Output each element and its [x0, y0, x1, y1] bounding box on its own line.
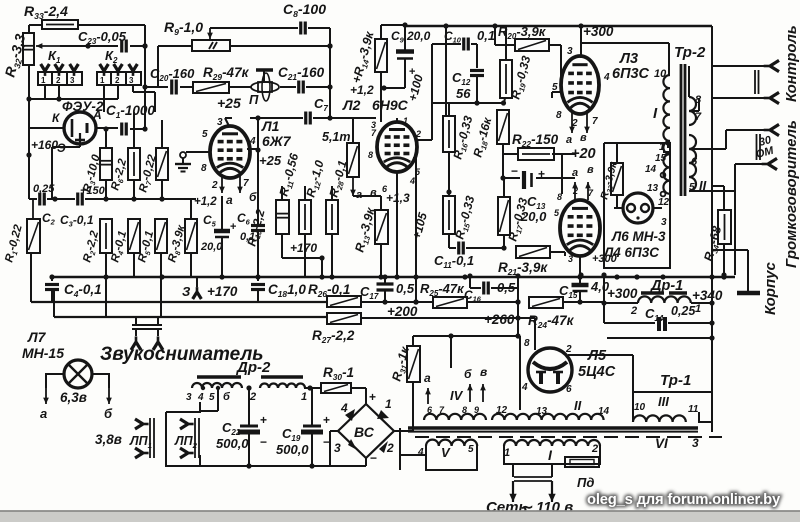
- wire P-C21: [280, 86, 296, 88]
- resistor R19: [500, 60, 512, 98]
- svg-text:6Н9С: 6Н9С: [372, 97, 409, 113]
- wire R3 top: [105, 129, 107, 148]
- resistor R20: [515, 39, 549, 51]
- wire K2 pins down: [103, 85, 105, 112]
- svg-text:0,1: 0,1: [477, 28, 495, 43]
- svg-text:С21​-160: С21​-160: [278, 65, 325, 82]
- svg-text:III: III: [658, 394, 669, 409]
- capacitor C21: [297, 81, 300, 94]
- lamp L6: [623, 193, 653, 223]
- svg-text:II: II: [574, 398, 582, 413]
- wire x451 down: [450, 336, 452, 368]
- wire tap 15: [663, 151, 670, 153]
- svg-text:С20​-160: С20​-160: [150, 66, 195, 83]
- wire FEU left: [29, 127, 64, 129]
- svg-text:14: 14: [645, 164, 657, 175]
- frame right top: [711, 26, 713, 432]
- capacitor C18: [257, 277, 259, 281]
- svg-text:5: 5: [468, 444, 474, 455]
- svg-text:8: 8: [556, 110, 562, 121]
- svg-text:в: в: [370, 187, 377, 199]
- svg-text:6Ж7: 6Ж7: [262, 133, 292, 149]
- wire R15 bot: [448, 234, 450, 248]
- wire L2 pin5: [413, 157, 416, 159]
- resistor R9: [192, 40, 230, 51]
- resistor R30: [321, 383, 351, 393]
- svg-text:3: 3: [661, 217, 667, 228]
- pickup forks: [131, 336, 141, 350]
- jack speaker 1: [764, 124, 779, 135]
- svg-text:Л2: Л2: [342, 97, 361, 113]
- svg-text:+340: +340: [692, 288, 723, 303]
- svg-text:500,0: 500,0: [216, 436, 249, 451]
- resistor R16: [443, 116, 455, 152]
- wire C9 bottom: [384, 87, 405, 89]
- resistor R29: [193, 82, 229, 93]
- wire R2 bot: [105, 253, 107, 317]
- resistor R34: [718, 210, 731, 244]
- wire C3 right: [85, 198, 196, 200]
- svg-text:0,25: 0,25: [33, 183, 55, 195]
- svg-text:5,1m: 5,1m: [322, 130, 351, 144]
- svg-text:+1,2: +1,2: [194, 196, 217, 208]
- svg-text:13: 13: [536, 406, 548, 417]
- fork K2 c: [129, 64, 138, 76]
- svg-text:+: +: [323, 413, 330, 427]
- wire R30: [304, 387, 321, 389]
- wire L1 pins bottom: [221, 175, 223, 193]
- winding IV: [424, 414, 486, 420]
- wire C23 right: [130, 45, 145, 47]
- wire L4 arrows: [574, 182, 576, 200]
- resistor R14: [375, 39, 387, 72]
- svg-text:IV: IV: [450, 388, 464, 403]
- winding II: [492, 414, 604, 420]
- core Tp1: [408, 426, 698, 429]
- wire R26 right: [361, 301, 433, 303]
- svg-text:в: в: [587, 164, 594, 176]
- svg-text:R27​-2,2: R27​-2,2: [312, 328, 355, 345]
- wire y336: [413, 335, 518, 337]
- wire C20-R29: [180, 86, 193, 88]
- svg-text:6: 6: [566, 384, 572, 395]
- capacitor C12: [470, 69, 484, 72]
- resistor R11: [299, 200, 311, 234]
- svg-text:7: 7: [592, 116, 598, 127]
- bottom strip: [0, 511, 800, 522]
- svg-text:С18​1,0: С18​1,0: [268, 282, 306, 299]
- wire R6 top: [133, 112, 135, 148]
- plug arrows: [512, 481, 514, 502]
- svg-text:2: 2: [630, 305, 637, 317]
- svg-text:+200: +200: [387, 304, 418, 319]
- lamp L7: [64, 360, 92, 388]
- svg-text:−: −: [370, 451, 377, 465]
- wire x735 down: [734, 191, 736, 275]
- capacitor C20: [170, 80, 173, 95]
- svg-text:3: 3: [217, 117, 223, 128]
- box L6: [604, 143, 670, 268]
- wire R9 arrow: [209, 28, 211, 39]
- wire R16 bot: [448, 152, 450, 196]
- svg-text:+300: +300: [583, 24, 614, 39]
- svg-text:−: −: [260, 435, 267, 449]
- wire left rail: [28, 65, 30, 199]
- bus y301: [31, 301, 327, 303]
- resistor R3: [100, 148, 112, 180]
- svg-text:0,5: 0,5: [497, 280, 516, 295]
- wire FEU bottom: [79, 142, 81, 147]
- wire L4 bottom: [579, 256, 581, 277]
- svg-text:+25: +25: [217, 95, 241, 111]
- svg-text:+170: +170: [290, 241, 317, 255]
- svg-text:1: 1: [403, 116, 408, 126]
- wire C2-C3: [47, 198, 75, 200]
- svg-text:4: 4: [417, 447, 424, 458]
- svg-text:4: 4: [249, 136, 256, 147]
- svg-text:а: а: [226, 193, 233, 207]
- wire R5 bot: [160, 253, 162, 277]
- svg-text:+25: +25: [259, 153, 282, 168]
- wire L2 bottom: [396, 172, 398, 277]
- wire bridge top: [365, 395, 367, 404]
- wire L1 grid left: [186, 151, 210, 153]
- svg-text:а: а: [356, 189, 362, 201]
- resistor R7: [156, 148, 168, 180]
- jack speaker 2: [762, 158, 777, 169]
- jack LP1: [135, 419, 149, 429]
- svg-text:3: 3: [129, 76, 134, 85]
- capacitor C3: [76, 193, 79, 206]
- resistor R13: [375, 210, 388, 244]
- svg-text:56: 56: [456, 86, 471, 101]
- svg-text:+1,3: +1,3: [386, 191, 410, 205]
- wire R9 right: [230, 45, 330, 47]
- wire C5 bottom: [221, 253, 223, 277]
- svg-text:R33​-2,4: R33​-2,4: [24, 3, 68, 21]
- svg-text:МН-15: МН-15: [22, 345, 64, 361]
- svg-text:R25​-47к: R25​-47к: [420, 281, 465, 298]
- wire R1: [32, 199, 34, 219]
- wire L7 leads: [46, 374, 64, 388]
- wire R6 bot: [133, 180, 135, 199]
- svg-text:14: 14: [598, 406, 610, 417]
- wire R22: [503, 153, 518, 155]
- wire x712 lower: [711, 277, 713, 432]
- tube L4: [560, 200, 600, 256]
- svg-text:2: 2: [249, 391, 256, 403]
- wire R7 top: [161, 120, 163, 148]
- wire fuse: [552, 461, 565, 463]
- svg-text:в: в: [480, 365, 487, 379]
- arrow L7 a: [45, 388, 47, 404]
- svg-text:4: 4: [197, 392, 204, 403]
- bridge VS: [338, 404, 394, 458]
- resistor R31: [407, 346, 420, 382]
- wire Dr2 taps: [217, 388, 219, 411]
- svg-text:8: 8: [557, 192, 562, 202]
- svg-text:2: 2: [211, 180, 218, 191]
- tube L5: [528, 348, 572, 392]
- svg-text:б: б: [223, 391, 231, 403]
- winding III: [633, 415, 686, 422]
- resistor R25h: [433, 297, 467, 308]
- wire L3 pins: [552, 91, 561, 93]
- wire top bus y28: [210, 27, 298, 29]
- svg-text:П: П: [249, 92, 259, 107]
- svg-text:Тр-2: Тр-2: [674, 44, 706, 61]
- resistor R12: [326, 200, 338, 234]
- wire C7 row: [250, 117, 303, 119]
- wire R10 bottom: [281, 234, 283, 258]
- winding I: [504, 440, 600, 446]
- svg-text:З: З: [182, 284, 191, 299]
- svg-text:12: 12: [658, 197, 670, 208]
- svg-text:−: −: [511, 164, 518, 178]
- wire L5 top: [534, 318, 536, 350]
- circle pin14: [661, 173, 666, 178]
- wire C8 right: [308, 27, 330, 29]
- svg-text:−: −: [323, 435, 330, 449]
- wire R33 left: [29, 24, 42, 26]
- wire R7 bot: [161, 180, 163, 199]
- resistor R4: [128, 219, 140, 253]
- jack kontrol 1: [764, 60, 779, 71]
- wire arrow into R32: [36, 45, 60, 47]
- resistor R27h: [327, 313, 361, 324]
- svg-text:Л4 6П3С: Л4 6П3С: [603, 245, 659, 260]
- svg-text:6: 6: [691, 156, 698, 168]
- svg-text:+: +: [369, 390, 376, 404]
- svg-text:5: 5: [209, 392, 215, 403]
- svg-text:Л1: Л1: [261, 118, 280, 134]
- svg-text:С11​-0,1: С11​-0,1: [434, 253, 474, 270]
- capacitor C11: [457, 242, 460, 255]
- resistor R15: [443, 196, 455, 234]
- pickup lines: [132, 324, 162, 326]
- resistor R5: [155, 219, 167, 253]
- resistor R23: [611, 163, 623, 195]
- svg-text:4: 4: [603, 72, 610, 83]
- svg-text:R9​-1,0: R9​-1,0: [164, 19, 203, 37]
- wire Dr1 right: [691, 302, 713, 304]
- wire C13: [503, 177, 520, 179]
- svg-text:3: 3: [186, 392, 192, 403]
- wire R4 bot: [133, 253, 135, 277]
- switch K2: [97, 72, 141, 85]
- svg-text:А: А: [92, 108, 102, 122]
- transformer Tp2 core: [680, 64, 683, 196]
- wire R28: [352, 118, 354, 143]
- svg-text:а: а: [572, 167, 578, 179]
- svg-text:3: 3: [70, 76, 75, 85]
- svg-text:Л7: Л7: [27, 329, 47, 345]
- wire y275 right: [603, 268, 605, 275]
- capacitor C23: [120, 40, 123, 53]
- wire R32 row: [60, 45, 88, 47]
- jack kontrol 2: [764, 92, 779, 103]
- svg-text:V: V: [441, 445, 451, 460]
- svg-text:10: 10: [634, 402, 646, 413]
- wire R25: [467, 301, 518, 303]
- svg-text:R21​-3,9к: R21​-3,9к: [498, 260, 548, 277]
- fuse Pd: [565, 457, 599, 467]
- watermark: [0, 0, 1, 1]
- svg-text:Тр-1: Тр-1: [660, 372, 691, 389]
- piezo P: [251, 82, 279, 92]
- tube L2: [377, 122, 417, 172]
- svg-text:R29​-47к: R29​-47к: [203, 65, 250, 82]
- svg-text:Др-1: Др-1: [649, 278, 683, 294]
- ecap C9: [396, 49, 414, 54]
- jack LP2: [180, 419, 194, 429]
- wire Tp2 to jacks: [688, 66, 690, 97]
- wire C21 right: [306, 86, 330, 88]
- svg-text:4: 4: [521, 382, 528, 393]
- svg-text:8: 8: [524, 338, 530, 349]
- svg-text:Л6 МН-3: Л6 МН-3: [611, 229, 666, 244]
- svg-text:4: 4: [409, 176, 415, 186]
- wire R20: [494, 26, 496, 45]
- wire frame to ground: [712, 249, 748, 251]
- wire C1 right: [130, 128, 145, 130]
- capacitor C7: [304, 112, 307, 125]
- svg-text:Пд: Пд: [577, 475, 594, 490]
- svg-text:3: 3: [334, 441, 341, 455]
- svg-text:а: а: [424, 371, 431, 385]
- resistor R28: [347, 143, 359, 177]
- svg-text:1: 1: [695, 303, 701, 315]
- svg-text:6П3С: 6П3С: [612, 66, 650, 82]
- wire FEU right: [96, 127, 118, 129]
- svg-text:Корпус: Корпус: [762, 262, 779, 315]
- svg-text:б: б: [464, 367, 472, 381]
- wire L5 right: [568, 354, 633, 356]
- wire L3 top: [580, 26, 582, 43]
- svg-text:Громкоговоритель: Громкоговоритель: [783, 120, 800, 268]
- svg-text:+20: +20: [571, 146, 596, 162]
- wire bridge left: [330, 430, 338, 432]
- fork K2 b: [114, 64, 123, 76]
- wire C7 right: [313, 117, 330, 119]
- svg-text:VI: VI: [655, 436, 668, 451]
- svg-text:в: в: [580, 132, 587, 144]
- wire V left: [400, 454, 426, 456]
- wire Tp2 prim bottom: [669, 194, 671, 200]
- resistor R21: [516, 246, 550, 258]
- capacitor C1: [120, 123, 123, 136]
- resistor R18: [497, 110, 509, 144]
- wire x161 drop: [160, 277, 162, 317]
- resistor R8: [185, 219, 197, 253]
- svg-text:+: +: [230, 221, 236, 233]
- wire R3 bot: [105, 180, 107, 199]
- wire Tp2 prim top: [668, 43, 670, 75]
- svg-text:7: 7: [695, 111, 702, 123]
- wire C14 down: [607, 337, 713, 339]
- svg-text:500,0: 500,0: [276, 442, 309, 457]
- wire bridge right: [394, 430, 413, 432]
- wire plug: [514, 476, 552, 478]
- resistor R17: [498, 197, 510, 235]
- wire row y87 left: [145, 86, 168, 88]
- svg-text:2: 2: [415, 129, 421, 139]
- svg-text:5: 5: [202, 129, 208, 140]
- svg-text:12: 12: [496, 405, 508, 416]
- svg-text:С3​-0,1: С3​-0,1: [60, 213, 94, 229]
- wire K2 pin3 down: [132, 85, 134, 92]
- transformer Tp2 sec a: [689, 97, 696, 125]
- arrow v: [482, 384, 484, 402]
- wire R8 bot: [190, 253, 192, 277]
- wire R17: [503, 178, 505, 197]
- core Tp1 dashed: [415, 436, 722, 438]
- resistor R24h: [529, 297, 563, 308]
- wire L1 top pin: [225, 118, 229, 126]
- svg-text:С4​-0,1: С4​-0,1: [64, 282, 102, 299]
- bus y317: [54, 316, 327, 318]
- svg-text:5Ц4С: 5Ц4С: [578, 364, 616, 380]
- capacitor C4: [51, 277, 53, 281]
- tube L1: [210, 126, 250, 178]
- arrow a: [427, 388, 429, 404]
- svg-text:+260: +260: [484, 312, 515, 327]
- capacitor C14: [657, 317, 661, 331]
- wire C11 right: [466, 247, 504, 249]
- svg-text:8: 8: [462, 405, 467, 415]
- box LP2: [166, 402, 200, 412]
- transformer Tp2 primary: [663, 75, 670, 194]
- svg-text:Л3: Л3: [619, 51, 638, 67]
- svg-text:4: 4: [340, 401, 348, 415]
- wire K1 pins down: [44, 85, 46, 99]
- svg-text:1: 1: [100, 76, 105, 85]
- svg-text:2: 2: [115, 76, 120, 85]
- switch K1: [38, 72, 82, 85]
- wire top bus main: [405, 25, 712, 27]
- svg-text:С1​-1000: С1​-1000: [106, 103, 155, 120]
- svg-text:+300: +300: [607, 286, 638, 301]
- svg-text:С8​-100: С8​-100: [283, 1, 326, 19]
- ground L1: [180, 152, 186, 158]
- wire row y199: [29, 198, 37, 200]
- bus y277: [52, 276, 735, 279]
- svg-text:1: 1: [301, 391, 307, 403]
- svg-text:11: 11: [688, 404, 699, 415]
- svg-text:7: 7: [243, 178, 249, 189]
- svg-text:0,5: 0,5: [396, 281, 415, 296]
- svg-text:3: 3: [567, 46, 573, 57]
- fork K1 a: [41, 64, 50, 76]
- box V: [426, 446, 477, 470]
- resistor R22: [518, 148, 554, 160]
- wire L6 top: [616, 143, 618, 163]
- svg-text:а: а: [40, 406, 47, 421]
- wire R33 right: [78, 24, 145, 26]
- phototube FEU-2: [64, 112, 96, 144]
- wire R14 top: [380, 25, 382, 39]
- capacitor C2: [38, 193, 41, 206]
- svg-text:6,3в: 6,3в: [60, 390, 87, 405]
- box I: [504, 446, 600, 464]
- svg-text:20,0: 20,0: [200, 241, 223, 253]
- wire R27 right: [361, 317, 518, 319]
- resistor R33: [42, 20, 78, 29]
- fork K1 c: [70, 64, 79, 76]
- svg-text:20,0: 20,0: [406, 29, 431, 43]
- wire L1 pin4: [247, 148, 258, 150]
- arrow L7 b: [108, 388, 110, 404]
